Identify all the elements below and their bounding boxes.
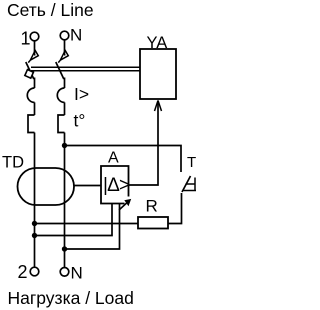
A supply wire to N — [65, 204, 120, 250]
terminal N (top) — [60, 31, 69, 40]
terminal N (bottom) — [60, 268, 69, 277]
wire R to button lower terminal — [168, 193, 182, 224]
wire phase tap to R — [35, 223, 139, 225]
trip coil YA — [140, 49, 176, 99]
differential transformer TD — [18, 168, 75, 205]
wire TD secondary to A — [74, 185, 101, 187]
magnetic release pole 1 — [27, 88, 34, 102]
amplifier A box — [101, 166, 129, 204]
svg-text:T: T — [187, 154, 196, 171]
wire pole 1 down through TD — [34, 133, 36, 268]
svg-text:N: N — [70, 26, 82, 45]
wire — [34, 102, 36, 115]
thermal release pole 1 — [28, 115, 35, 133]
wire A output to YA — [129, 101, 159, 186]
wire pole N down through TD — [64, 133, 66, 268]
terminal 1 — [30, 32, 39, 41]
wire pole N — [64, 78, 66, 89]
test wire from N tap to button T — [65, 146, 182, 173]
svg-text:Нагрузка / Load: Нагрузка / Load — [8, 288, 134, 308]
test button blade — [182, 176, 191, 192]
contact arrow pole 1 — [28, 50, 38, 62]
svg-text:A: A — [108, 149, 119, 166]
svg-text:I>: I> — [74, 84, 89, 104]
svg-text:TD: TD — [2, 154, 24, 172]
wire from terminal N — [64, 40, 66, 53]
contact arrow pole N — [58, 50, 68, 62]
magnetic release pole N — [57, 88, 64, 102]
svg-text:1: 1 — [21, 29, 31, 49]
A supply wire to phase — [35, 204, 113, 236]
svg-text:|Δ>: |Δ> — [103, 175, 130, 196]
terminal 2 — [30, 267, 39, 276]
arrowhead into YA — [155, 101, 162, 112]
mechanical linkage to YA (double line) — [31, 66, 140, 68]
node: phase tap to A supply — [32, 233, 37, 238]
breaker blade pole N — [56, 62, 64, 79]
test button actuator — [184, 178, 197, 192]
wire — [64, 102, 66, 115]
wire pole 1 — [34, 78, 36, 89]
svg-text:R: R — [146, 197, 158, 216]
svg-text:2: 2 — [18, 262, 28, 282]
node: phase tap to R — [32, 221, 37, 226]
thermal release pole N — [58, 115, 65, 133]
wire from terminal 1 — [34, 41, 36, 53]
breaker latch square — [25, 70, 34, 79]
svg-text:t°: t° — [74, 111, 86, 131]
A output corner arrow — [119, 202, 128, 210]
svg-text:Сеть / Line: Сеть / Line — [7, 0, 94, 20]
breaker blade pole 1 — [26, 62, 34, 79]
node: N tap to A supply — [62, 246, 67, 251]
svg-text:N: N — [71, 264, 83, 283]
node: N tap above TD — [62, 143, 67, 148]
resistor R — [138, 217, 168, 229]
